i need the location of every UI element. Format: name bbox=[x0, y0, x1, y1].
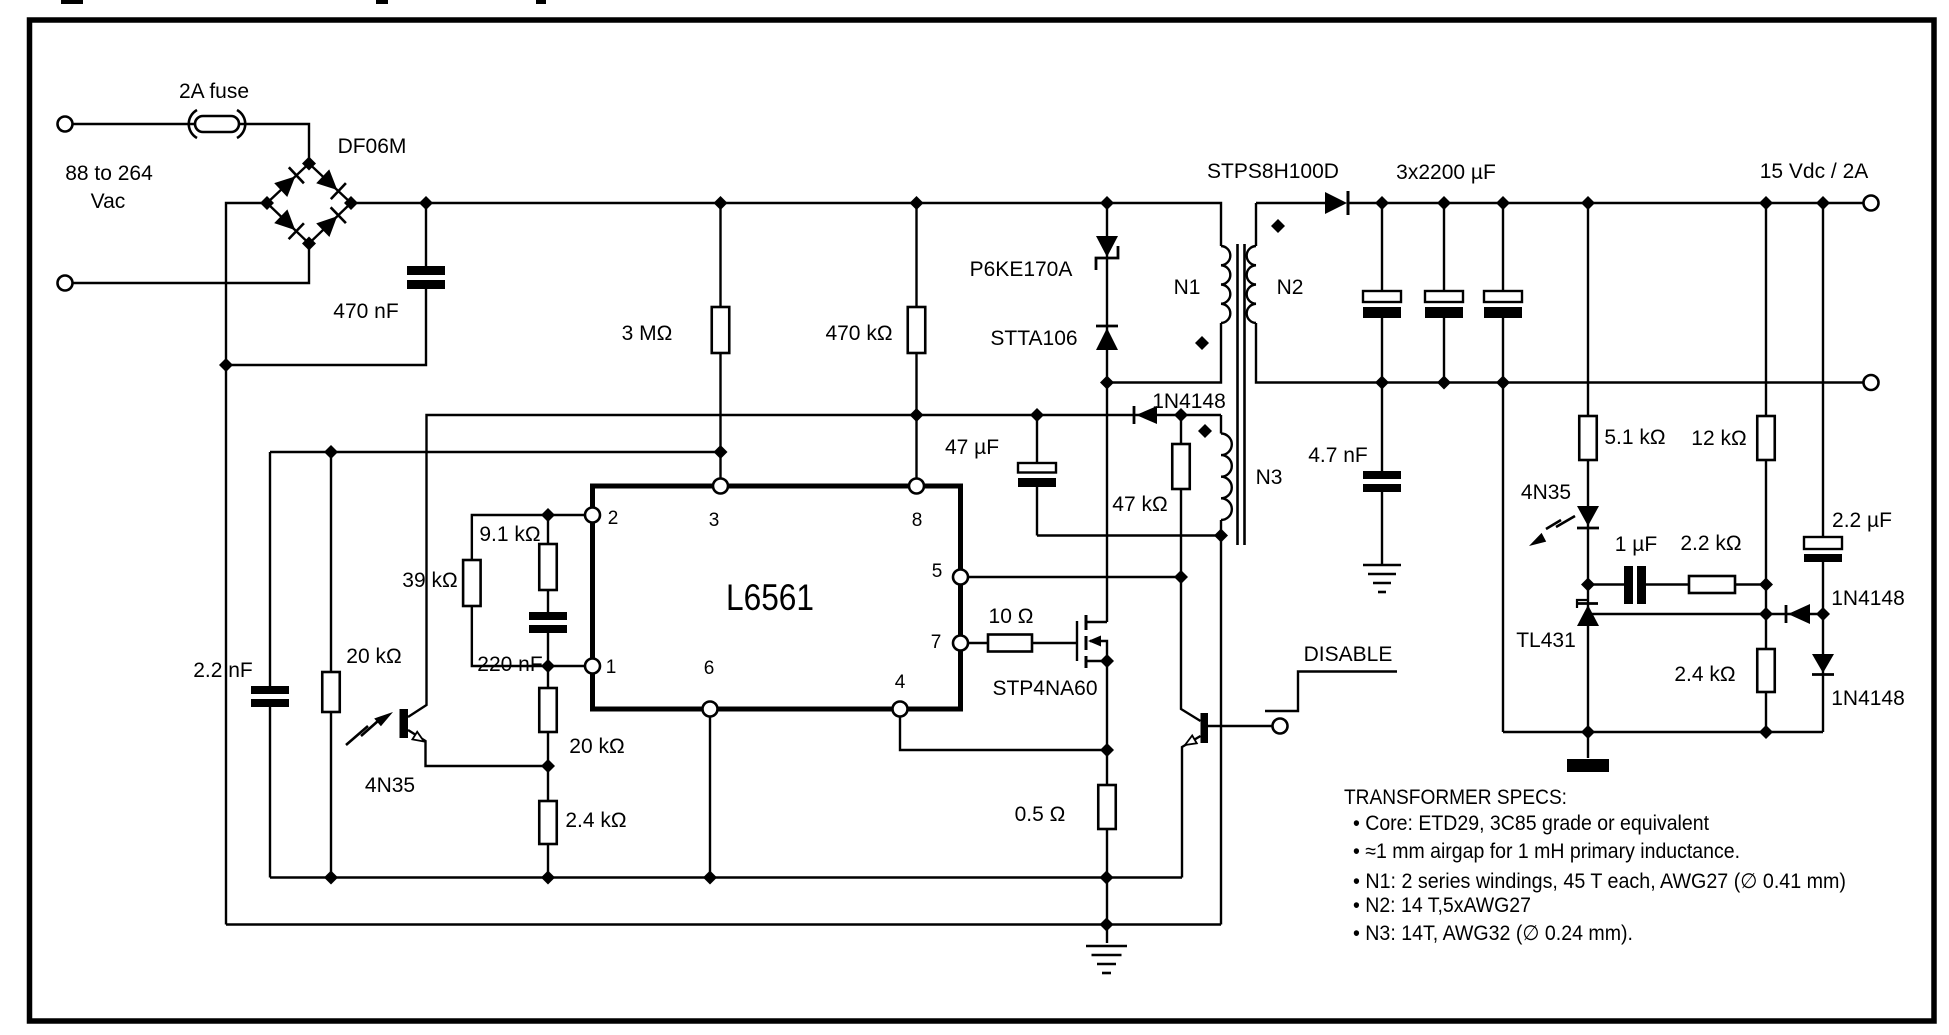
junction bridge left bbox=[260, 196, 274, 210]
svg-text:STPS8H100D: STPS8H100D bbox=[1207, 160, 1339, 183]
svg-text:8: 8 bbox=[912, 510, 923, 531]
wire: bridge left vertex to left rail down to bottom bus2 bbox=[226, 203, 267, 925]
svg-text:3 MΩ: 3 MΩ bbox=[622, 322, 673, 345]
junction 0V bus cap3 bbox=[1496, 376, 1510, 390]
wire: source vertical through 0.5R to grounds bbox=[1106, 661, 1108, 943]
phase dot N3 bbox=[1198, 424, 1212, 438]
wire: output cap 1 bbox=[1381, 203, 1383, 383]
secondary earth ground bbox=[1363, 565, 1401, 592]
capacitor 2200 µF no.1 bbox=[1363, 291, 1401, 318]
svg-text:2.2 kΩ: 2.2 kΩ bbox=[1680, 532, 1741, 555]
cropped caption remnants at top bbox=[61, 0, 546, 4]
junction Vcc pin8 bbox=[910, 408, 924, 422]
junction 2.2k 12k bbox=[1759, 578, 1773, 592]
resistor 0.5 Ω bbox=[1098, 785, 1116, 829]
wire: pin2 loop to 39k bbox=[472, 515, 585, 666]
svg-text:1N4148: 1N4148 bbox=[1831, 687, 1905, 710]
capacitor 2200 µF no.2 bbox=[1425, 291, 1463, 318]
junction pin1 220nF bbox=[541, 659, 555, 673]
junction ZCD 47k bbox=[1174, 570, 1188, 584]
resistor 20 kΩ (left) bbox=[322, 672, 340, 712]
svg-text:N3: N3 bbox=[1256, 466, 1283, 489]
svg-text:12 kΩ: 12 kΩ bbox=[1691, 427, 1746, 450]
DISABLE step symbol bbox=[1265, 672, 1397, 712]
junction bridge right bbox=[344, 196, 358, 210]
transformer N1 winding bbox=[1221, 246, 1230, 323]
svg-text:N2: N2 bbox=[1277, 276, 1304, 299]
phase dot N1 bbox=[1195, 336, 1209, 350]
resistor 39 kΩ bbox=[463, 560, 481, 606]
svg-text:7: 7 bbox=[931, 632, 942, 653]
bridge rectifier DF06M diode 2 bbox=[315, 168, 346, 199]
wire: 47uF to N3 bottom line bbox=[1037, 534, 1221, 536]
svg-text:47 µF: 47 µF bbox=[945, 436, 999, 459]
svg-text:5: 5 bbox=[932, 561, 943, 582]
svg-text:4.7 nF: 4.7 nF bbox=[1308, 444, 1368, 467]
junction +15 bus 2.2uF bbox=[1816, 196, 1830, 210]
phase dot N2 bbox=[1271, 219, 1285, 233]
svg-text:47 kΩ: 47 kΩ bbox=[1112, 493, 1167, 516]
junction bus1 pin6 bbox=[703, 871, 717, 885]
wire: 20k mid / 2.4k chain down to bus1 bbox=[547, 666, 549, 878]
pin 5 bbox=[953, 570, 968, 585]
wire: bus1 signal ground bbox=[270, 876, 1182, 878]
wire: 5.1k / opto LED / TL431 chain bbox=[1587, 203, 1589, 758]
wire: pin4 to source junction bbox=[900, 716, 1107, 750]
junction 470k top bbox=[910, 196, 924, 210]
resistor 2.4 kΩ (right) bbox=[1757, 649, 1775, 692]
pin 6 bbox=[703, 702, 718, 717]
junction Vcc 47k bbox=[1174, 408, 1188, 422]
capacitor 2.2 nF bbox=[251, 686, 289, 707]
wire: 20k left vertical bbox=[330, 452, 332, 878]
wire: N3 return vertical bbox=[1220, 520, 1222, 925]
svg-text:2.2 µF: 2.2 µF bbox=[1832, 509, 1892, 532]
svg-text:1: 1 bbox=[606, 657, 617, 678]
svg-text:2.4 kΩ: 2.4 kΩ bbox=[565, 809, 626, 832]
bridge rectifier DF06M diode 4 bbox=[315, 207, 346, 238]
svg-text:20 kΩ: 20 kΩ bbox=[569, 735, 624, 758]
svg-text:• N3: 14T, AWG32 (∅ 0.24 mm).: • N3: 14T, AWG32 (∅ 0.24 mm). bbox=[1353, 922, 1633, 945]
svg-text:2A fuse: 2A fuse bbox=[179, 80, 249, 103]
MOSFET source stub and body stub bbox=[1086, 641, 1107, 661]
wire: output cap 2 bbox=[1443, 203, 1445, 383]
resistor 12 kΩ bbox=[1757, 416, 1775, 460]
wire: 3M branch down to pin 3 bbox=[719, 203, 721, 479]
wire: N2 top to rectifier bbox=[1256, 203, 1325, 246]
svg-text:STTA106: STTA106 bbox=[990, 327, 1077, 350]
wire: N2 bottom / secondary 0V bus bbox=[1256, 323, 1863, 383]
svg-text:2.2 nF: 2.2 nF bbox=[193, 659, 253, 682]
diode 1N4148 (horizontal) bbox=[1786, 604, 1810, 624]
junction pin4 source bbox=[1100, 743, 1114, 757]
svg-text:1 µF: 1 µF bbox=[1615, 533, 1657, 556]
wire: MULT line y=452 bbox=[270, 451, 721, 453]
junction ref line 2.2uF bbox=[1816, 607, 1830, 621]
junction left rail 470nF return bbox=[219, 358, 233, 372]
IC U1 L6561 bbox=[593, 486, 961, 709]
wire: pin7 to gate resistor and MOSFET gate bbox=[968, 642, 1077, 644]
junction MOSFET source bbox=[1100, 654, 1114, 668]
svg-text:88 to 264: 88 to 264 bbox=[65, 162, 153, 185]
junction 3M top bbox=[714, 196, 728, 210]
junction N3 bottom bbox=[1214, 529, 1228, 543]
svg-text:• N1: 2 series windings, 45 T: • N1: 2 series windings, 45 T each, AWG2… bbox=[1353, 870, 1846, 893]
wire: output cap 3 / feedback left rail bbox=[1502, 203, 1504, 732]
capacitor 2.2 µF bbox=[1804, 537, 1842, 562]
svg-text:2: 2 bbox=[608, 508, 619, 529]
svg-text:1N4148: 1N4148 bbox=[1831, 587, 1905, 610]
transformer core bbox=[1238, 244, 1245, 545]
junction TL431 ref 1uF bbox=[1581, 578, 1595, 592]
junction bus1 20k left bbox=[324, 871, 338, 885]
wire: 2.2uF / 1N4148 chain bbox=[1822, 203, 1824, 732]
capacitor 470 nF bbox=[407, 266, 445, 289]
svg-text:DF06M: DF06M bbox=[338, 135, 407, 158]
wire: 470k branch down to pin 8 bbox=[915, 203, 917, 479]
svg-text:P6KE170A: P6KE170A bbox=[970, 258, 1073, 281]
resistor 2.4 kΩ (left) bbox=[539, 801, 557, 844]
junction 0V bus cap2 bbox=[1437, 376, 1451, 390]
wire: HV top bus from bridge to N1 bbox=[351, 203, 1221, 246]
resistor 47 kΩ bbox=[1172, 444, 1190, 489]
junction TL431 anode bus bbox=[1581, 725, 1595, 739]
junction +15 bus 12k bbox=[1759, 196, 1773, 210]
output terminal 0V bbox=[1864, 375, 1879, 390]
svg-text:STP4NA60: STP4NA60 bbox=[992, 677, 1097, 700]
transistor Q2 emitter arrowhead bbox=[1185, 736, 1197, 746]
wire: bus2 return bbox=[226, 923, 1221, 925]
junction +15 bus cap2 bbox=[1437, 196, 1451, 210]
junction MULT 20k bbox=[324, 445, 338, 459]
resistor 470 kΩ bbox=[908, 307, 926, 353]
pin 7 bbox=[953, 636, 968, 651]
svg-text:TRANSFORMER SPECS:: TRANSFORMER SPECS: bbox=[1344, 786, 1567, 809]
junction bus1 2.4k bbox=[541, 871, 555, 885]
wire: 47k vertical bbox=[1180, 415, 1182, 577]
resistor 10 Ω bbox=[988, 635, 1032, 652]
pin 1 bbox=[585, 659, 600, 674]
capacitor 220 nF bbox=[529, 612, 567, 633]
input terminal lower bbox=[58, 276, 73, 291]
resistor 20 kΩ (mid) bbox=[539, 688, 557, 732]
bridge rectifier DF06M diode 3 bbox=[273, 208, 304, 239]
svg-text:470 kΩ: 470 kΩ bbox=[825, 322, 892, 345]
wire: disable transistor base to terminal bbox=[1208, 725, 1272, 727]
optocoupler 4N35 phototransistor bbox=[346, 709, 424, 745]
wire: disable transistor emitter down to bus1 bbox=[1182, 736, 1201, 878]
wire: TL431 bottom bus bbox=[1503, 731, 1823, 733]
svg-text:20 kΩ: 20 kΩ bbox=[346, 645, 401, 668]
svg-text:3x2200 µF: 3x2200 µF bbox=[1396, 161, 1496, 184]
wire: fuse to bridge top bbox=[239, 124, 309, 165]
junction clamp top bbox=[1100, 196, 1114, 210]
resistor 3 MΩ bbox=[712, 307, 730, 353]
svg-text:TL431: TL431 bbox=[1516, 629, 1576, 652]
wire: pin6 down to bus1 bbox=[709, 716, 711, 878]
bridge rectifier DF06M diode 1 bbox=[273, 167, 304, 198]
transformer N3 winding bbox=[1221, 434, 1232, 521]
IC pin circles bbox=[585, 479, 968, 717]
svg-text:15 Vdc / 2A: 15 Vdc / 2A bbox=[1760, 160, 1869, 183]
primary ground symbol bbox=[1086, 946, 1127, 973]
svg-text:470 nF: 470 nF bbox=[333, 300, 398, 323]
MOSFET channel dashes bbox=[1085, 615, 1088, 668]
wire: TL431 ref line to 1N4148 bbox=[1592, 613, 1823, 615]
svg-text:10 Ω: 10 Ω bbox=[989, 605, 1034, 628]
junction +15 bus cap1 bbox=[1375, 196, 1389, 210]
junction 2.4k bus bbox=[1759, 725, 1773, 739]
wire: N3 top drop bbox=[1220, 415, 1222, 434]
wire: clamp chain / MOSFET drain vertical bbox=[1106, 203, 1108, 622]
MOSFET gate bar bbox=[1076, 621, 1078, 661]
pin 8 bbox=[909, 479, 924, 494]
transformer specs text bbox=[1344, 786, 1846, 945]
junction bridge top bbox=[302, 157, 316, 171]
wire: secondary +15V bus bbox=[1348, 202, 1864, 204]
junction MULT pin3 bbox=[714, 445, 728, 459]
wire: N1 bottom link bbox=[1107, 323, 1221, 383]
svg-text:• Core: ETD29, 3C85 grade or e: • Core: ETD29, 3C85 grade or equivalent bbox=[1353, 812, 1709, 835]
junction +15 bus 5.1k bbox=[1581, 196, 1595, 210]
svg-text:220 nF: 220 nF bbox=[477, 653, 542, 676]
resistor 5.1 kΩ bbox=[1579, 416, 1597, 460]
disable terminal bbox=[1273, 719, 1288, 734]
svg-text:0.5 Ω: 0.5 Ω bbox=[1015, 803, 1066, 826]
wire: 4.7nF branch bbox=[1381, 383, 1383, 565]
TVS diode P6KE170A bbox=[1096, 236, 1118, 270]
MOSFET drain stub bbox=[1086, 621, 1107, 623]
svg-text:3: 3 bbox=[709, 510, 720, 531]
junction 470nF top bbox=[419, 196, 433, 210]
wire: 1uF / 2.2k compensation line bbox=[1588, 583, 1766, 585]
fuse F1 2A bbox=[189, 110, 246, 138]
MOSFET STP4NA60 body arrow bbox=[1088, 636, 1101, 647]
transformer N2 winding bbox=[1247, 246, 1256, 323]
pin 3 bbox=[713, 479, 728, 494]
capacitor 47 µF bbox=[1018, 463, 1056, 487]
output terminal +15V bbox=[1864, 196, 1879, 211]
svg-text:4N35: 4N35 bbox=[365, 774, 415, 797]
resistor 9.1 kΩ bbox=[539, 544, 557, 590]
pin 2 bbox=[585, 508, 600, 523]
shunt regulator TL431 bbox=[1577, 600, 1599, 626]
diode STTA106 bbox=[1096, 326, 1118, 350]
junction pin2 9.1k bbox=[541, 508, 555, 522]
svg-text:DISABLE: DISABLE bbox=[1304, 643, 1393, 666]
svg-text:N1: N1 bbox=[1174, 276, 1201, 299]
junction bridge bottom bbox=[302, 237, 316, 251]
wire: 47uF branch bbox=[1036, 415, 1038, 536]
svg-text:4: 4 bbox=[895, 672, 906, 693]
svg-text:6: 6 bbox=[704, 658, 715, 679]
pin 4 bbox=[893, 702, 908, 717]
svg-text:L6561: L6561 bbox=[726, 576, 814, 618]
svg-text:• N2: 14 T,5xAWG27: • N2: 14 T,5xAWG27 bbox=[1353, 894, 1531, 917]
diode 1N4148 (vertical) bbox=[1812, 654, 1834, 675]
capacitor 4.7 nF bbox=[1363, 471, 1401, 492]
diode STPS8H100D bbox=[1325, 191, 1348, 215]
wire: input line upper to fuse bbox=[72, 123, 195, 125]
junction +15 bus cap3 bbox=[1496, 196, 1510, 210]
svg-text:4N35: 4N35 bbox=[1521, 481, 1571, 504]
wire: input line lower to bridge bottom bbox=[72, 244, 309, 284]
resistor 2.2 kΩ bbox=[1689, 576, 1735, 593]
svg-text:5.1 kΩ: 5.1 kΩ bbox=[1604, 426, 1665, 449]
svg-text:39 kΩ: 39 kΩ bbox=[402, 569, 457, 592]
svg-text:1N4148: 1N4148 bbox=[1152, 390, 1226, 413]
diode 1N4148 (aux supply) bbox=[1134, 406, 1157, 424]
wire: 9.1k / 220nF chain bbox=[547, 515, 549, 666]
svg-text:2.4 kΩ: 2.4 kΩ bbox=[1674, 663, 1735, 686]
junction bus1 0.5R bbox=[1100, 871, 1114, 885]
wire: ZCD line pin5 to 47k bbox=[968, 576, 1181, 578]
wire: ZCD down to disable transistor collector bbox=[1181, 577, 1201, 721]
junction ref line 12k bbox=[1759, 607, 1773, 621]
svg-text:9.1 kΩ: 9.1 kΩ bbox=[479, 523, 540, 546]
svg-text:Vac: Vac bbox=[91, 190, 126, 213]
junction Vcc 47uF bbox=[1030, 408, 1044, 422]
capacitor 2200 µF no.3 bbox=[1484, 291, 1522, 318]
wire: 12k / 2.4k chain bbox=[1765, 203, 1767, 732]
wire: bridge diamond sides bbox=[267, 164, 351, 244]
optocoupler 4N35 LED bbox=[1529, 506, 1599, 546]
junction opto emitter divider bbox=[541, 759, 555, 773]
junction bus2 ground bbox=[1100, 918, 1114, 932]
capacitor 1 µF bbox=[1624, 566, 1646, 604]
svg-text:• ≈1 mm airgap for 1 mH primar: • ≈1 mm airgap for 1 mH primary inductan… bbox=[1353, 840, 1740, 863]
junction clamp N1 bottom bbox=[1100, 376, 1114, 390]
wire: 2.2nF vertical bbox=[269, 452, 271, 878]
wire: 470nF branch and return to left rail bbox=[226, 203, 426, 365]
transistor Q2 disable BJT base bar bbox=[1201, 713, 1209, 743]
TL431 ground bar bbox=[1567, 759, 1609, 772]
IC pin numbers bbox=[606, 508, 943, 693]
junction 0V bus cap1 bbox=[1375, 376, 1389, 390]
wire: Vcc rail y=415 with left drop to optocoupler collector bbox=[408, 415, 1221, 717]
input terminal upper bbox=[58, 117, 73, 132]
wire: optocoupler emitter to divider junction bbox=[408, 730, 548, 766]
